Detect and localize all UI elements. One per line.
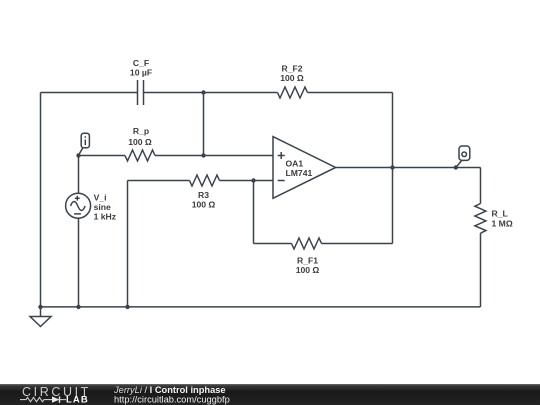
node junction - input / feedback (251, 178, 255, 182)
svg-text:JerryLi / I Control inphase: JerryLi / I Control inphase (113, 385, 226, 395)
wire feedback up right to output node (392, 168, 394, 244)
node junction R_p / top branch (201, 153, 205, 157)
op-amp OA1 LM741 (273, 137, 336, 199)
resistor R_p (125, 150, 155, 161)
resistor R_F1 (292, 238, 322, 249)
flag o (456, 146, 470, 168)
svg-text:1 MΩ: 1 MΩ (492, 219, 513, 229)
svg-text:C_F: C_F (133, 58, 149, 68)
svg-text:100 Ω: 100 Ω (296, 265, 320, 275)
ground (30, 307, 51, 327)
label R_F1 value 100 Ω (296, 256, 320, 276)
wire feedback bottom left segment (254, 243, 292, 245)
label R_F2 value 100 Ω (280, 64, 304, 84)
svg-text:LAB: LAB (66, 395, 89, 405)
svg-text:R3: R3 (198, 190, 209, 200)
node junction top (C_F / R_F2 / down to R_p) (201, 90, 205, 94)
wire feedback down from - node (253, 181, 255, 244)
wire bottom rail (41, 306, 481, 308)
label R_p value 100 Ω (128, 126, 152, 147)
wire R3 left branch vertical (127, 181, 129, 307)
resistor R3 (190, 175, 220, 186)
footer title text (113, 385, 230, 405)
resistor R_L (475, 204, 486, 234)
label R3 value 100 Ω (192, 190, 216, 210)
svg-text:R_p: R_p (133, 126, 149, 136)
wire flag junction to R_p (79, 155, 126, 157)
node junction V_i bottom (76, 305, 80, 309)
logo CIRCUIT LAB (20, 385, 91, 405)
voltage source V_i (66, 156, 91, 307)
wire R_L top vertical (480, 168, 482, 204)
wire R_F2 right to top-right corner (308, 92, 393, 94)
wire R_L bottom vertical (480, 233, 482, 307)
wire R3 left horizontal (128, 180, 190, 182)
resistor R_F2 (278, 87, 308, 98)
footer bar (0, 384, 540, 405)
svg-text:sine: sine (94, 202, 111, 212)
node junction output flag (454, 165, 458, 169)
svg-text:R_L: R_L (492, 209, 508, 219)
svg-text:100 Ω: 100 Ω (128, 137, 152, 147)
wire C_F right to junction (144, 92, 278, 94)
capacitor C_F (138, 80, 144, 105)
wire right vertical down to output node (392, 93, 394, 168)
node junction output / feedback (390, 165, 394, 169)
svg-text:OA1: OA1 (286, 159, 304, 169)
node junction ground (38, 305, 42, 309)
svg-text:100 Ω: 100 Ω (280, 73, 304, 83)
svg-text:1 kHz: 1 kHz (94, 211, 116, 221)
node junction R3 bottom (125, 305, 129, 309)
label R_L value 1 MΩ (492, 209, 513, 229)
label V_i sine 1 kHz (94, 193, 116, 222)
node junction flag i / V_i / R_p (76, 153, 80, 157)
wire top-left horizontal (left rail to C_F) (41, 92, 138, 94)
wire R_p right to op-amp + input (155, 155, 273, 157)
svg-text:LM741: LM741 (286, 168, 313, 178)
svg-text:R_F1: R_F1 (297, 256, 318, 266)
wire R_F1 right segment (322, 243, 393, 245)
wire R3 right to op-amp - input (220, 180, 274, 182)
label C_F value 10 µF (130, 58, 152, 78)
wire junction down to R_p net (203, 93, 205, 156)
svg-text:100 Ω: 100 Ω (192, 200, 216, 210)
svg-text:10 µF: 10 µF (130, 68, 152, 78)
wire op-amp output to R_L corner (336, 167, 481, 169)
wire left vertical rail (40, 93, 42, 307)
svg-text:http://circuitlab.com/cuggbfp: http://circuitlab.com/cuggbfp (114, 395, 230, 405)
svg-text:R_F2: R_F2 (281, 64, 302, 74)
flag i (79, 133, 90, 155)
